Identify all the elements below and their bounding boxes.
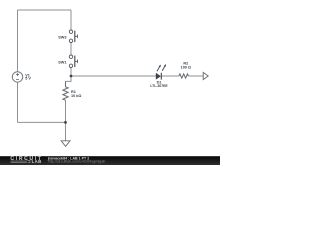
svg-text:5 V: 5 V [25,77,31,81]
svg-text:SW3: SW3 [58,36,66,40]
svg-text:100 Ω: 100 Ω [181,65,191,69]
wire left vertical (V1 top to top rail) [17,10,19,72]
wire V1 bottom down [17,82,19,122]
svg-text:SW1: SW1 [58,61,66,65]
switch SW3 [58,30,77,43]
wire SW1 to node A [70,68,72,76]
wire R1 bottom to node B [65,100,67,122]
switch SW1 [58,55,77,68]
wire right vertical to SW3 [70,10,72,30]
wire node B to ground [65,122,67,140]
node B junction dot [64,121,67,124]
resistor R1 [63,81,82,100]
wire R2 to flag [188,75,203,77]
node A junction dot [70,75,73,78]
wire node A step down to R1 [66,76,72,81]
voltage source V1 [12,72,31,82]
wire node A to LED anode [71,75,156,77]
svg-text:http://circuitlab.com/c42r09og: http://circuitlab.com/c42r09ogn9gab [48,160,106,164]
wire bottom horizontal to node B [18,121,66,123]
svg-text:LAB: LAB [32,159,42,164]
wire SW3 to SW1 [70,43,72,55]
resistor R2 [179,61,191,78]
ground [61,141,70,147]
node flag (output terminal) [203,72,208,79]
svg-text:LTL-307EE: LTL-307EE [150,84,168,88]
LED D1 [150,64,168,88]
svg-text:10 kΩ: 10 kΩ [71,94,81,98]
wire LED cathode to R2 [162,75,179,77]
wire top horizontal [18,9,72,11]
CircuitLab logo [10,156,42,164]
